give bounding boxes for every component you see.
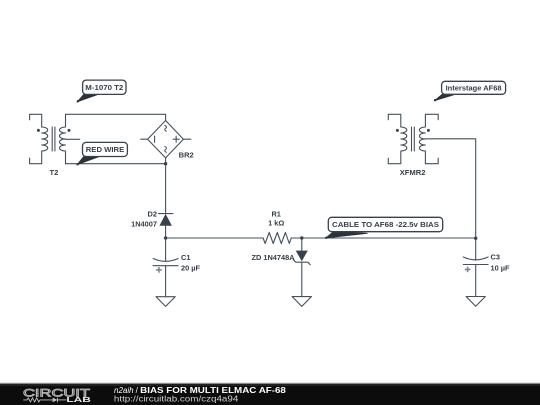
svg-text:LAB: LAB [66,395,91,404]
svg-text:BR2: BR2 [179,151,194,160]
svg-text:M-1070 T2: M-1070 T2 [85,83,123,92]
svg-text:20 µF: 20 µF [181,263,201,272]
svg-text:CABLE TO AF68 -22.5v BIAS: CABLE TO AF68 -22.5v BIAS [332,220,439,229]
svg-text:http://circuitlab.com/czq4a94: http://circuitlab.com/czq4a94 [114,394,239,403]
svg-text:1 kΩ: 1 kΩ [268,219,284,228]
svg-text:RED WIRE: RED WIRE [86,145,125,154]
svg-text:Interstage AF68: Interstage AF68 [446,84,502,93]
svg-text:C3: C3 [491,253,500,262]
svg-text:C1: C1 [181,253,190,262]
svg-text:R1: R1 [271,210,280,219]
svg-text:T2: T2 [49,168,58,177]
svg-text:D2: D2 [148,210,157,219]
svg-text:1N4007: 1N4007 [131,219,157,228]
svg-text:10 µF: 10 µF [491,263,511,272]
svg-text:ZD 1N4748A: ZD 1N4748A [251,253,295,262]
svg-text:XFMR2: XFMR2 [400,168,426,177]
